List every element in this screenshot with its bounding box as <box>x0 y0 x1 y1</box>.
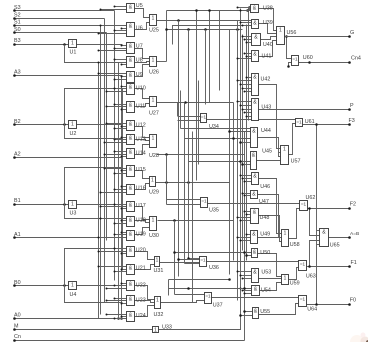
wire U39 to U56 <box>259 24 277 34</box>
wire U25 out <box>157 19 252 22</box>
svg-text:U5: U5 <box>136 3 143 9</box>
NOR gate U30 <box>149 217 159 239</box>
svg-text:&: & <box>254 35 258 41</box>
NOR gate U29 <box>149 177 159 196</box>
wire trunk j <box>196 11 198 181</box>
svg-text:1: 1 <box>71 202 74 208</box>
AND gate U39 <box>252 20 273 29</box>
wire U8 inputs <box>98 59 127 66</box>
wire U36 top input <box>187 257 199 260</box>
svg-text:&: & <box>322 230 326 236</box>
wire U24 inputs <box>106 314 127 320</box>
svg-text:U14: U14 <box>136 151 146 157</box>
wire trunk n <box>166 11 168 62</box>
svg-text:&: & <box>129 297 133 303</box>
wire row 29.9 <box>165 28 242 31</box>
wire U44 input row c <box>239 141 250 144</box>
svg-text:1: 1 <box>71 41 74 47</box>
svg-text:&: & <box>254 309 258 315</box>
wire U49 inputs <box>237 234 251 242</box>
NOR gate U27 <box>149 97 159 117</box>
svg-text:U12: U12 <box>136 123 146 129</box>
NOR gate U56 <box>277 27 297 45</box>
svg-text:&: & <box>129 248 133 254</box>
svg-text:1: 1 <box>152 218 155 224</box>
wire U54 to U59 <box>260 283 282 291</box>
AND gate U10 <box>127 84 146 95</box>
AND gate U24 <box>127 312 146 322</box>
svg-text:1: 1 <box>283 147 286 153</box>
svg-text:&: & <box>129 58 133 64</box>
AND gate U55 <box>253 308 271 319</box>
wire U60 second input <box>287 63 291 68</box>
input A3 <box>13 70 122 77</box>
svg-text:U55: U55 <box>260 309 270 315</box>
wire U27 out <box>157 101 234 104</box>
wire U7 to U26 <box>135 49 150 59</box>
svg-text:Cn: Cn <box>14 334 21 340</box>
XOR gate U36 <box>200 257 219 272</box>
svg-text:U61: U61 <box>305 119 315 125</box>
wire B0 lower branch <box>65 286 123 303</box>
wire U12 to U28 <box>135 127 150 138</box>
wire B2 upper branch <box>65 89 123 125</box>
svg-text:U24: U24 <box>136 313 146 319</box>
wire U20 to U31 <box>135 252 155 260</box>
svg-text:B1: B1 <box>14 198 21 204</box>
svg-text:U30: U30 <box>149 233 159 239</box>
wire U14 inputs <box>104 151 127 158</box>
svg-text:&: & <box>129 103 133 109</box>
svg-text:U62: U62 <box>306 195 316 201</box>
wire U10 inputs <box>106 86 127 93</box>
svg-text:&: & <box>253 210 257 216</box>
svg-text:U34: U34 <box>209 124 219 130</box>
svg-text:&: & <box>253 21 257 27</box>
svg-text:&: & <box>129 203 133 209</box>
wire U16 to U29 <box>135 184 150 190</box>
junction A0 b <box>120 317 123 320</box>
svg-text:&: & <box>129 5 133 11</box>
svg-text:&: & <box>252 232 256 238</box>
AND gate U16 <box>127 185 146 195</box>
AND gate U23 <box>127 296 146 306</box>
wire U13 inputs <box>104 137 127 144</box>
AND gate U17 <box>127 202 146 212</box>
svg-text:1: 1 <box>152 58 155 64</box>
XOR gate U37 <box>205 293 223 309</box>
svg-text:&: & <box>253 270 257 276</box>
svg-text:&: & <box>252 192 256 198</box>
wire U14 to U28 <box>135 145 150 155</box>
svg-text:G: G <box>350 30 354 36</box>
svg-text:&: & <box>129 266 133 272</box>
wire U36 input row c <box>185 263 200 265</box>
wire U15 inputs <box>104 168 127 175</box>
XOR gate U35 <box>201 198 219 214</box>
wire U53 inputs <box>237 271 252 280</box>
svg-text:U50: U50 <box>260 250 270 256</box>
AND gate U20 <box>127 247 146 257</box>
wire trunk q <box>205 30 207 105</box>
wire U40 inputs <box>242 36 252 44</box>
wire S3 bus <box>114 11 116 281</box>
wire U59 to U63 <box>289 268 299 280</box>
svg-text:U20: U20 <box>136 248 146 254</box>
svg-text:U57: U57 <box>291 159 301 165</box>
AND gate U19 <box>127 231 146 241</box>
svg-text:U54: U54 <box>261 288 271 294</box>
wire U6 to U25 <box>135 23 150 30</box>
svg-text:U42: U42 <box>261 77 271 83</box>
svg-text:U10: U10 <box>136 86 146 92</box>
AND gate U47 <box>251 191 269 206</box>
wire left bus a <box>98 63 100 319</box>
svg-text:U1: U1 <box>70 50 77 56</box>
wire B1 lower branch <box>65 205 123 219</box>
wire U35 bot input <box>167 204 201 206</box>
wire trunk b <box>177 103 179 117</box>
AND gate U8 <box>127 57 143 68</box>
svg-text:U4: U4 <box>70 292 77 298</box>
wire trunk d <box>180 91 182 129</box>
input S2 <box>13 13 104 20</box>
wire U13 to U28 <box>135 140 150 141</box>
inverter U3 <box>69 201 77 217</box>
wire U54 inputs <box>240 288 252 295</box>
output P <box>259 103 355 111</box>
svg-text:&: & <box>129 122 133 128</box>
svg-text:&: & <box>129 73 133 79</box>
AND gate U12 <box>127 121 146 131</box>
wire U44 to U57 <box>258 138 281 157</box>
wire U57 to U61 <box>289 124 296 155</box>
AND gate U53 <box>252 269 272 283</box>
wire U8 to U26 <box>135 62 150 63</box>
wire U30 out <box>158 219 234 222</box>
svg-text:&: & <box>252 153 256 159</box>
wire U9 inputs <box>98 73 127 81</box>
svg-text:U2: U2 <box>70 131 77 137</box>
wire U28 out <box>157 153 245 156</box>
inverter U4 <box>69 282 77 299</box>
wire trunk k <box>198 81 200 165</box>
svg-text:&: & <box>129 85 133 91</box>
wire U53 to U59 <box>259 278 282 280</box>
svg-text:M: M <box>14 324 19 330</box>
wire U24 to U32 <box>135 306 155 317</box>
input B2 <box>13 119 68 126</box>
wire B1 upper branch <box>65 168 123 205</box>
wire U50 input row a <box>173 251 251 254</box>
svg-text:U45: U45 <box>262 148 272 154</box>
svg-text:&: & <box>129 44 133 50</box>
svg-text:1: 1 <box>152 136 155 142</box>
wire U38 inputs <box>237 7 251 12</box>
svg-text:U26: U26 <box>149 70 159 76</box>
svg-text:U27: U27 <box>149 111 159 117</box>
AND gate U45 <box>251 148 272 169</box>
wire U23 inputs <box>106 298 127 305</box>
wire U11 to U27 <box>135 104 150 107</box>
svg-text:U58: U58 <box>290 242 300 248</box>
input B3 <box>13 38 68 46</box>
wire U41 inputs <box>237 53 252 60</box>
wire U21 inputs <box>98 266 127 273</box>
output F0 <box>307 298 356 306</box>
wire trunk l <box>184 103 186 264</box>
svg-text:S3: S3 <box>14 5 21 11</box>
svg-text:A2: A2 <box>14 151 21 157</box>
svg-text:&: & <box>129 282 133 288</box>
XOR gate U34 <box>201 114 219 131</box>
svg-text:U47: U47 <box>259 199 269 205</box>
wire U26 out <box>157 61 167 63</box>
svg-text:U25: U25 <box>149 28 159 34</box>
svg-text:U33: U33 <box>162 325 172 331</box>
svg-text:U29: U29 <box>149 190 159 196</box>
NOR gate U33 <box>153 325 172 334</box>
wire U48 inputs <box>237 211 251 222</box>
input Cn <box>13 334 244 342</box>
input A2 <box>13 151 122 158</box>
wire trunk g <box>166 155 168 205</box>
wire U36 to U63 <box>207 261 299 263</box>
wire U12 inputs <box>106 123 127 130</box>
input B1 <box>13 198 68 206</box>
wire trunk o <box>166 183 168 200</box>
wire U37 top input <box>175 294 205 296</box>
svg-text:U31: U31 <box>154 268 164 274</box>
svg-text:&: & <box>253 250 257 256</box>
svg-text:=1: =1 <box>300 297 306 302</box>
AND gate U44 <box>251 128 271 148</box>
wire U7 inputs <box>98 45 127 52</box>
svg-text:A=B: A=B <box>350 231 359 237</box>
svg-text:=1: =1 <box>201 199 207 204</box>
wire gate bus b <box>122 89 124 271</box>
svg-text:1: 1 <box>284 276 287 282</box>
wire U18 inputs <box>100 218 127 225</box>
wire F2 to U65 <box>308 207 319 235</box>
svg-text:&: & <box>253 52 257 58</box>
input B0 <box>13 280 68 287</box>
svg-text:&: & <box>254 287 258 293</box>
AND gate U21 <box>127 265 146 275</box>
wire B0 node <box>63 284 66 287</box>
svg-text:1: 1 <box>156 298 159 304</box>
svg-text:=1: =1 <box>200 258 206 263</box>
wire B3 inverted <box>77 44 123 46</box>
wire trunk s <box>168 280 170 296</box>
wire left bus b <box>118 63 120 319</box>
output G <box>285 30 355 38</box>
junction Cn4 <box>308 61 311 64</box>
wire M bus to U55 <box>239 314 252 317</box>
wire Cn to U55 <box>243 310 252 313</box>
wire B2 lower branch <box>65 125 123 139</box>
svg-text:&: & <box>253 75 257 81</box>
svg-text:U6: U6 <box>136 26 143 32</box>
wire U23 to U32 <box>135 301 155 303</box>
wire U58 to U62 <box>289 209 300 239</box>
AND gate U9 <box>127 72 143 83</box>
output F3 <box>303 118 355 126</box>
wire U47 inputs <box>242 193 251 197</box>
input S0 <box>13 27 106 34</box>
AND gate U14 <box>127 149 146 159</box>
input M <box>13 324 152 331</box>
svg-text:=1: =1 <box>300 262 306 267</box>
svg-text:1: 1 <box>154 328 157 334</box>
wire U36 input row b <box>177 258 199 261</box>
wire U17 to U30 <box>135 207 150 220</box>
NOR gate U31 <box>154 257 164 274</box>
svg-text:U65: U65 <box>330 243 340 249</box>
inverter U2 <box>69 121 77 138</box>
XOR gate U61 <box>296 119 315 127</box>
wire U44 input row b <box>185 137 251 140</box>
wire B1 node <box>63 203 66 206</box>
svg-text:=1: =1 <box>205 294 211 299</box>
wire mid bus g <box>248 7 250 121</box>
wire S1 bus <box>100 26 102 315</box>
AND gate U18 <box>127 217 146 227</box>
svg-text:F2: F2 <box>350 202 356 208</box>
wire trunk e <box>188 30 190 259</box>
wire U16 inputs <box>100 186 127 194</box>
svg-text:=1: =1 <box>201 115 207 120</box>
svg-text:B2: B2 <box>14 119 21 125</box>
svg-text:U41: U41 <box>262 54 272 60</box>
wire U34 to U61 <box>207 119 296 121</box>
svg-text:1: 1 <box>152 16 155 22</box>
wire U18 to U30 <box>135 221 150 223</box>
wire row 279 <box>169 278 231 281</box>
wire B3 node <box>63 43 66 46</box>
wire F1 to U65 <box>308 241 319 268</box>
wire A3 bus <box>121 76 123 319</box>
svg-text:Cn4: Cn4 <box>351 56 361 62</box>
svg-text:U64: U64 <box>307 307 317 313</box>
svg-text:F1: F1 <box>351 260 357 266</box>
wire U35 top input <box>167 199 201 201</box>
NOR gate U28 <box>149 135 159 160</box>
wire F0 to U65 <box>315 245 319 306</box>
svg-text:=1: =1 <box>292 57 298 62</box>
wire U17 inputs <box>100 204 127 210</box>
wire trunk p <box>174 221 176 295</box>
XOR gate U62 <box>300 195 316 210</box>
AND gate U43 <box>252 99 272 121</box>
NOR gate U58 <box>282 230 300 249</box>
svg-text:U8: U8 <box>136 58 143 64</box>
wire U35 to U62 <box>208 203 300 205</box>
svg-text:U16: U16 <box>136 186 146 192</box>
XOR gate U60 <box>292 55 313 66</box>
wire U40 to U56 <box>261 37 277 40</box>
svg-text:=1: =1 <box>301 202 307 207</box>
svg-text:U63: U63 <box>306 274 316 280</box>
wire trunk i <box>192 132 194 303</box>
svg-text:=1: =1 <box>296 120 302 125</box>
wire U15 to U29 <box>135 171 150 179</box>
NOR gate U57 <box>281 146 301 165</box>
wire U29 out <box>156 181 230 184</box>
AND gate U65 <box>320 229 340 249</box>
wire F3 to U65 <box>315 123 319 304</box>
wire U19 inputs <box>98 232 127 239</box>
wire U38 input row <box>167 7 251 12</box>
AND gate U41 <box>252 51 272 62</box>
svg-text:U18: U18 <box>136 218 146 224</box>
svg-text:A0: A0 <box>14 313 21 319</box>
wire S0 bus <box>106 33 108 241</box>
svg-text:F3: F3 <box>349 118 355 124</box>
wire U44 input row d <box>181 128 251 130</box>
wire U21 to U31 <box>135 265 155 270</box>
output Cn4 <box>299 56 361 64</box>
wire U55 out <box>259 304 299 315</box>
svg-text:U40: U40 <box>263 42 273 48</box>
inverter U1 <box>69 40 77 56</box>
wire U56 to U60 <box>285 35 291 58</box>
output F2 <box>308 202 356 210</box>
wire U32 out <box>161 301 205 303</box>
AND gate U46 <box>252 173 271 191</box>
wire U22 to U32 <box>135 286 155 300</box>
AND gate U11 <box>127 102 146 113</box>
svg-text:U15: U15 <box>136 167 146 173</box>
svg-text:U46: U46 <box>260 184 270 190</box>
svg-text:U19: U19 <box>136 232 146 238</box>
wire trunk r <box>209 11 211 103</box>
svg-text:U44: U44 <box>261 128 271 134</box>
wire U19 to U30 <box>135 228 150 235</box>
svg-text:B0: B0 <box>14 280 21 286</box>
wire B3 lower branch <box>65 45 123 63</box>
wire trunk m <box>219 11 221 91</box>
wire row 25.6 <box>173 26 252 45</box>
svg-text:&: & <box>129 232 133 238</box>
AND gate U5 <box>127 3 143 13</box>
svg-text:U37: U37 <box>213 303 223 309</box>
wire U11 inputs <box>106 104 127 111</box>
svg-text:S2: S2 <box>14 13 21 19</box>
svg-text:U9: U9 <box>136 72 143 78</box>
AND gate U48 <box>251 209 270 224</box>
AND gate U7 <box>127 43 143 54</box>
wire B0 upper branch <box>65 249 123 286</box>
wire B2 inverted <box>77 124 123 126</box>
output F1 <box>307 260 357 268</box>
wire mid bus c <box>237 21 239 301</box>
svg-text:1: 1 <box>284 231 287 237</box>
svg-text:U60: U60 <box>303 55 313 61</box>
svg-text:U49: U49 <box>260 232 270 238</box>
wire mid bus f <box>246 25 248 261</box>
svg-text:&: & <box>129 24 133 30</box>
input S1 <box>13 20 100 27</box>
svg-text:U36: U36 <box>209 265 219 271</box>
svg-text:U28: U28 <box>149 153 159 159</box>
svg-text:&: & <box>253 174 257 180</box>
NOR gate U32 <box>154 297 164 319</box>
output A=B <box>329 231 360 239</box>
input A0 <box>13 313 126 320</box>
svg-text:A3: A3 <box>14 70 21 76</box>
svg-text:1: 1 <box>71 283 74 289</box>
